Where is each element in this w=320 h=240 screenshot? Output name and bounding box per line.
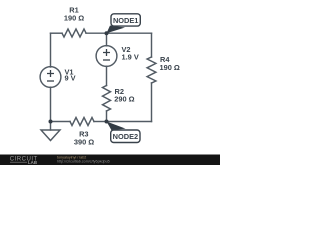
node junction dot (NODE1 tap) <box>105 31 109 35</box>
V1 plus sign <box>47 70 54 77</box>
svg-text:290 Ω: 290 Ω <box>114 95 134 104</box>
wire top segment left of R1 <box>51 32 63 34</box>
resistor R3 <box>70 118 94 126</box>
NODE2 callout box <box>111 130 140 143</box>
V2 plus sign <box>103 49 110 56</box>
wire V1 bottom lead <box>50 87 52 121</box>
wire bottom segment R3 to node2 <box>94 121 107 123</box>
NODE1 callout pointer <box>107 26 126 34</box>
svg-text:190 Ω: 190 Ω <box>160 63 180 72</box>
NODE1 callout box <box>111 14 140 26</box>
wire top segment R1 to right corner <box>86 32 152 34</box>
wire top-left vertical <box>50 33 52 67</box>
svg-text:NODE2: NODE2 <box>113 132 138 141</box>
node junction dot (NODE2 tap) <box>105 120 109 124</box>
svg-text:9 V: 9 V <box>65 74 76 83</box>
V2 minus sign <box>103 59 110 61</box>
voltage source V1 body <box>40 67 61 88</box>
svg-text:NODE1: NODE1 <box>113 16 138 25</box>
V1 minus sign <box>47 80 54 82</box>
wire bottom segment right (node2 to right corner) <box>107 121 152 123</box>
svg-text:1.9 V: 1.9 V <box>122 53 139 62</box>
svg-text:390 Ω: 390 Ω <box>74 137 94 146</box>
wire right vertical lower (R4 bottom to corner) <box>151 83 153 122</box>
wire bottom segment left of R3 <box>51 121 71 123</box>
wire right vertical upper (to R4 top) <box>151 33 153 57</box>
wire V2 top lead <box>106 33 108 46</box>
wire R2 bottom lead <box>106 111 108 122</box>
wire V2 bottom lead <box>106 66 108 85</box>
voltage source V2 body <box>96 46 117 67</box>
NODE2 callout pointer <box>107 122 126 131</box>
node junction dot (ground / V1) <box>49 120 53 124</box>
ground symbol <box>41 130 60 141</box>
svg-text:190 Ω: 190 Ω <box>64 13 84 22</box>
ground stem <box>50 122 52 131</box>
footer watermark bar <box>0 155 220 166</box>
resistor R4 <box>147 57 156 83</box>
svg-text:http://circuitlab.com/c/fy6pkq: http://circuitlab.com/c/fy6pkqbu5 <box>57 159 110 163</box>
resistor R1 <box>62 29 86 37</box>
svg-text:LAB: LAB <box>28 160 37 165</box>
resistor R2 <box>103 86 111 112</box>
